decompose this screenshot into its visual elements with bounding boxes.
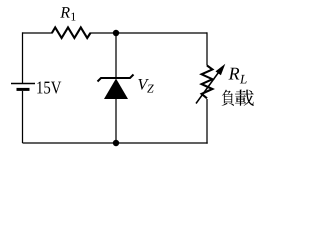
variable resistor RL arrow head	[216, 64, 226, 76]
wire middle vertical upper (node A to zener cathode)	[115, 33, 117, 78]
label 負 (load)	[222, 90, 234, 106]
wire bottom segment right	[116, 142, 208, 144]
resistor R1	[52, 27, 91, 38]
wire top segment right (node A to right branch)	[116, 32, 207, 34]
battery 15V positive plate	[11, 83, 35, 85]
variable resistor RL arrow shaft	[196, 69, 221, 104]
zener diode VZ cathode bar with bent ends	[98, 75, 134, 82]
wire bottom segment left	[23, 142, 117, 144]
wire right vertical upper	[206, 32, 208, 65]
wire left vertical lower	[22, 91, 24, 143]
zener diode VZ anode triangle	[104, 79, 128, 100]
wire left vertical upper	[22, 32, 24, 83]
label R1	[60, 7, 70, 17]
wire middle vertical lower (zener anode to node B)	[115, 98, 117, 143]
label RL	[229, 68, 240, 80]
label 載 (load)	[235, 90, 254, 106]
label 15V	[37, 82, 61, 94]
node A (top junction)	[113, 30, 119, 36]
wire top segment middle (R1 to node A)	[90, 32, 117, 34]
battery 15V negative plate	[17, 88, 30, 91]
node B (bottom junction)	[113, 140, 119, 146]
wire right vertical lower	[206, 99, 208, 144]
variable resistor RL zigzag	[202, 66, 213, 99]
wire top segment left (battery to R1)	[23, 32, 53, 34]
label VZ	[138, 79, 148, 90]
